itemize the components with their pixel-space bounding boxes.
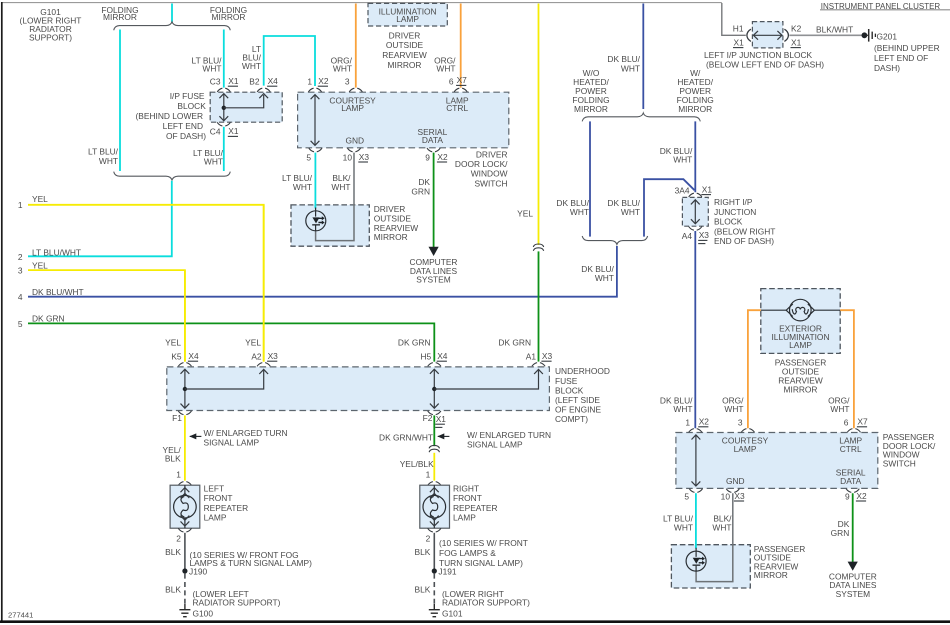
svg-text:(10 SERIES W/ FRONT: (10 SERIES W/ FRONT — [439, 538, 528, 548]
splice J191 — [432, 568, 437, 573]
svg-text:SWITCH: SWITCH — [883, 458, 916, 468]
svg-text:JUNCTION: JUNCTION — [714, 207, 756, 217]
svg-text:WHT: WHT — [673, 155, 692, 165]
pin A2 X3 — [257, 363, 270, 367]
wire blk J191 to G101 (dashed) — [433, 574, 435, 605]
svg-text:LEFT END: LEFT END — [163, 121, 203, 131]
pin 9 X2 — [427, 148, 440, 152]
svg-text:X3: X3 — [359, 152, 370, 162]
wire org/wht right of lamp to pin 6 — [840, 310, 854, 428]
wire blk J190 to G100 (dashed) — [184, 574, 186, 605]
svg-text:WHT: WHT — [712, 522, 731, 532]
svg-text:RIGHT I/P: RIGHT I/P — [714, 197, 753, 207]
svg-text:YEL/BLK: YEL/BLK — [400, 459, 434, 469]
svg-text:X3: X3 — [542, 351, 553, 361]
ground G101 — [429, 604, 440, 617]
svg-text:SYSTEM: SYSTEM — [836, 589, 870, 599]
wire 3 riser segment over crossings — [184, 270, 186, 362]
svg-text:LAMP: LAMP — [396, 14, 419, 24]
wire lt blu/wht pin 5 to mirror — [314, 153, 316, 209]
pin 9 X2 — [846, 489, 859, 493]
svg-text:WHT: WHT — [293, 182, 312, 192]
svg-text:10: 10 — [343, 152, 353, 162]
in-line connector on right repeater wire — [429, 445, 439, 452]
wire 2 riser lt blu/wht — [28, 181, 172, 256]
wire org/wht left of lamp to pin 3 — [748, 310, 761, 428]
svg-text:FUSE: FUSE — [555, 376, 578, 386]
svg-text:WHT: WHT — [99, 156, 118, 166]
wire blk/wht pin 10 down into passenger mirror — [696, 493, 733, 581]
pin K2 X1 (right paren) — [784, 29, 788, 41]
wire lt blu/wht stub from top into brace — [171, 4, 173, 23]
svg-text:MIRROR: MIRROR — [678, 104, 712, 114]
svg-text:A1: A1 — [526, 351, 537, 361]
svg-text:A2: A2 — [251, 351, 262, 361]
svg-text:MIRROR: MIRROR — [784, 384, 818, 394]
wire dk blu/wht w/ heated branch down to 3A4 — [694, 121, 696, 192]
svg-text:SIGNAL LAMP: SIGNAL LAMP — [467, 439, 523, 449]
svg-text:WHT: WHT — [331, 182, 350, 192]
underhood fuse block — [167, 367, 550, 411]
svg-text:X1: X1 — [228, 126, 239, 136]
svg-text:RADIATOR SUPPORT): RADIATOR SUPPORT) — [193, 598, 281, 608]
svg-text:MIRROR: MIRROR — [574, 104, 608, 114]
svg-text:WHT: WHT — [570, 207, 589, 217]
svg-text:H5: H5 — [420, 351, 431, 361]
svg-text:MIRROR: MIRROR — [388, 60, 422, 70]
svg-text:6: 6 — [449, 76, 454, 86]
wire lt blu/wht right folding mirror branch to C3 — [223, 30, 225, 88]
brace splitting folding mirror wires — [114, 22, 231, 30]
svg-text:K5: K5 — [171, 351, 182, 361]
svg-text:WINDOW: WINDOW — [471, 169, 508, 179]
svg-text:MIRROR: MIRROR — [374, 232, 408, 242]
svg-text:REARVIEW: REARVIEW — [382, 50, 427, 60]
svg-text:BLK: BLK — [165, 547, 181, 557]
page bottom border — [0, 620, 950, 623]
driver outside rearview mirror box — [291, 205, 369, 246]
svg-text:X1: X1 — [734, 38, 745, 48]
svg-text:3: 3 — [345, 76, 350, 86]
pin C3 — [217, 88, 230, 92]
svg-text:H1: H1 — [733, 23, 744, 33]
svg-text:X2: X2 — [699, 417, 710, 427]
wire dk blu/wht main from instrument area top — [642, 4, 644, 110]
wire dk grn from connector down to A1 — [538, 251, 540, 361]
wire dk blu/wht tap from 3A4 junction to merge brace — [644, 179, 695, 236]
svg-text:WHT: WHT — [724, 404, 743, 414]
svg-text:(BELOW LEFT END OF DASH): (BELOW LEFT END OF DASH) — [706, 60, 824, 70]
lamp symbol — [761, 299, 840, 321]
svg-text:FRONT: FRONT — [204, 493, 233, 503]
wire 5 dk grn to H5 — [28, 323, 434, 361]
svg-text:GRN: GRN — [411, 187, 430, 197]
svg-text:3A4: 3A4 — [675, 186, 690, 196]
exterior illumination lamp box (passenger mirror) — [761, 289, 840, 354]
svg-text:F1: F1 — [172, 413, 182, 423]
pin F1 — [178, 411, 191, 415]
pin 2 right repeater lamp — [428, 528, 441, 532]
svg-text:6: 6 — [844, 417, 849, 427]
svg-text:B2: B2 — [249, 76, 260, 86]
svg-text:I/P FUSE: I/P FUSE — [170, 91, 205, 101]
svg-text:SUPPORT): SUPPORT) — [29, 32, 72, 42]
pin H5 X4 — [428, 363, 441, 367]
svg-text:5: 5 — [684, 491, 689, 501]
svg-text:9: 9 — [425, 152, 430, 162]
svg-text:F2: F2 — [423, 413, 433, 423]
svg-text:YEL: YEL — [32, 194, 48, 204]
svg-text:GND: GND — [345, 135, 364, 145]
pin C4 — [217, 122, 230, 126]
wire blk left lamp to J190 — [184, 533, 186, 571]
ground splice G201 — [862, 32, 868, 38]
svg-text:3: 3 — [738, 417, 743, 427]
svg-text:WHT: WHT — [595, 273, 614, 283]
svg-text:G201: G201 — [877, 31, 898, 41]
svg-text:DOOR LOCK/: DOOR LOCK/ — [455, 159, 508, 169]
svg-text:X3: X3 — [268, 351, 279, 361]
svg-text:LEFT I/P JUNCTION BLOCK: LEFT I/P JUNCTION BLOCK — [704, 50, 813, 60]
illumination lamp (driver mirror, cut off at top) — [368, 3, 447, 26]
svg-text:DK GRN: DK GRN — [398, 337, 431, 347]
wire lt blu/wht C4 down to lower brace — [223, 127, 225, 171]
svg-text:MIRROR: MIRROR — [754, 570, 788, 580]
svg-text:SIGNAL LAMP: SIGNAL LAMP — [204, 437, 260, 447]
wire dk grn pin 9 to computer data lines arrow — [433, 153, 435, 248]
svg-text:SWITCH: SWITCH — [474, 178, 507, 188]
wire blk right lamp to J191 — [433, 533, 435, 571]
pin 6 X7 — [847, 429, 860, 433]
svg-text:J191: J191 — [438, 567, 457, 577]
wire blk/wht K2 to G201 — [789, 34, 862, 36]
wire lt blu/wht left folding mirror branch — [119, 30, 121, 172]
svg-text:DK GRN: DK GRN — [498, 337, 531, 347]
svg-text:COMPT): COMPT) — [555, 414, 588, 424]
svg-text:2: 2 — [18, 252, 23, 262]
pin 5 — [689, 489, 702, 493]
right front repeater lamp — [420, 485, 450, 528]
svg-text:LAMPS & TURN SIGNAL LAMP): LAMPS & TURN SIGNAL LAMP) — [190, 558, 313, 568]
driver switch internal courtesy lamp arrow — [314, 95, 316, 144]
svg-text:C3: C3 — [210, 76, 221, 86]
svg-text:X2: X2 — [318, 76, 329, 86]
svg-text:LAMP: LAMP — [789, 340, 812, 350]
I/P fuse block — [210, 92, 282, 122]
svg-text:DRIVER: DRIVER — [476, 150, 508, 160]
brace merging branches to wire 4 — [582, 236, 647, 244]
pin 1 left repeater lamp — [178, 482, 191, 486]
svg-text:(BEHIND UPPER: (BEHIND UPPER — [874, 43, 940, 53]
wire 1 yellow to A2 — [28, 205, 264, 362]
svg-text:1: 1 — [685, 417, 690, 427]
left i/p junction block — [752, 22, 783, 48]
wire yel/blk F1 to left repeater lamp — [184, 415, 186, 480]
svg-text:BLK/WHT: BLK/WHT — [816, 25, 853, 35]
svg-text:RADIATOR SUPPORT): RADIATOR SUPPORT) — [442, 598, 530, 608]
svg-text:5: 5 — [306, 152, 311, 162]
svg-text:WHT: WHT — [242, 61, 261, 71]
svg-text:LAMP: LAMP — [453, 512, 476, 522]
svg-text:BLK: BLK — [165, 585, 181, 595]
svg-text:X3: X3 — [734, 491, 745, 501]
svg-text:DASH): DASH) — [874, 63, 900, 73]
svg-text:X2: X2 — [856, 491, 867, 501]
svg-text:WHT: WHT — [621, 63, 640, 73]
svg-text:CTRL: CTRL — [840, 444, 862, 454]
svg-text:X2: X2 — [437, 152, 448, 162]
wire dk blu/wht from A4 down to passenger switch pin 1 — [694, 231, 696, 428]
svg-text:X1: X1 — [791, 38, 802, 48]
wire 3 yellow to K5 — [28, 270, 185, 362]
svg-text:YEL: YEL — [165, 337, 181, 347]
svg-text:OF ENGINE: OF ENGINE — [555, 405, 601, 415]
wire 4 dk blu/wht long run — [28, 246, 617, 297]
pin 5 — [309, 148, 322, 152]
svg-text:RIGHT: RIGHT — [453, 484, 479, 494]
note w/ enlarged turn signal lamp (left) — [190, 435, 202, 437]
pin 10 X3 — [347, 148, 360, 152]
svg-text:X7: X7 — [457, 75, 468, 85]
note w/ enlarged turn signal lamp (right) — [438, 435, 450, 437]
svg-text:YEL: YEL — [517, 208, 533, 218]
svg-text:K2: K2 — [791, 23, 802, 33]
svg-text:END OF DASH): END OF DASH) — [714, 236, 774, 246]
svg-text:GRN: GRN — [831, 528, 850, 538]
svg-text:WHT: WHT — [333, 64, 352, 74]
svg-text:WHT: WHT — [202, 64, 221, 74]
svg-text:WHT: WHT — [673, 404, 692, 414]
svg-text:X1: X1 — [702, 184, 713, 194]
svg-text:X1: X1 — [436, 414, 447, 424]
svg-text:X7: X7 — [857, 417, 868, 427]
svg-text:1: 1 — [176, 469, 181, 479]
passenger outside rearview mirror box — [671, 545, 750, 588]
svg-text:DK GRN: DK GRN — [32, 314, 65, 324]
brace merging folding mirror wires to wire 2 — [114, 172, 231, 180]
svg-text:4: 4 — [18, 292, 23, 302]
pin 3A4 X1 of right junction block — [689, 193, 702, 197]
left front repeater lamp — [170, 485, 200, 528]
pin 2 left repeater lamp — [178, 528, 191, 532]
svg-text:BLK: BLK — [415, 547, 431, 557]
svg-text:LAMP: LAMP — [341, 103, 364, 113]
svg-text:DATA: DATA — [422, 135, 444, 145]
svg-text:OF DASH): OF DASH) — [166, 131, 206, 141]
svg-text:(BEHIND LOWER: (BEHIND LOWER — [136, 111, 203, 121]
svg-text:MIRROR: MIRROR — [103, 12, 137, 22]
svg-text:2: 2 — [426, 534, 431, 544]
wire yel from top (door lock switch area) down to connector — [538, 4, 540, 246]
svg-text:WHT: WHT — [674, 522, 693, 532]
brace splitting dk blu/wht to heated/non-heated — [582, 113, 700, 121]
svg-text:1: 1 — [426, 469, 431, 479]
svg-text:INSTRUMENT PANEL CLUSTER: INSTRUMENT PANEL CLUSTER — [821, 2, 941, 11]
ground G100 — [179, 604, 190, 617]
right i/p junction block — [682, 197, 708, 226]
pin B2 — [257, 88, 270, 92]
svg-text:DK: DK — [418, 177, 430, 187]
svg-text:LEFT: LEFT — [204, 484, 224, 494]
wire lt blu/wht from B2 up and over to pin 1 — [264, 36, 315, 86]
page top border — [3, 2, 722, 4]
svg-text:G100: G100 — [193, 609, 214, 619]
wire blk/wht pin 10 down into mirror — [316, 153, 354, 241]
svg-text:X4: X4 — [188, 351, 199, 361]
svg-text:W/ ENLARGED TURN: W/ ENLARGED TURN — [467, 430, 551, 440]
svg-text:OUTSIDE: OUTSIDE — [386, 40, 424, 50]
svg-text:C4: C4 — [210, 127, 221, 137]
svg-text:FOG LAMPS &: FOG LAMPS & — [439, 548, 496, 558]
svg-text:DATA: DATA — [840, 476, 862, 486]
svg-text:X4: X4 — [268, 76, 279, 86]
svg-text:SYSTEM: SYSTEM — [416, 275, 450, 285]
mirror LED symbol — [306, 208, 326, 232]
page left border — [1, 2, 3, 623]
instrument panel cluster box bottom edge — [820, 9, 950, 11]
svg-text:DK BLU/WHT: DK BLU/WHT — [32, 287, 84, 297]
svg-text:X3: X3 — [699, 230, 710, 240]
wire org/wht left from top to pin 3 — [355, 4, 357, 88]
svg-text:BLK: BLK — [165, 453, 181, 463]
svg-text:(BELOW RIGHT: (BELOW RIGHT — [714, 226, 775, 236]
svg-text:1: 1 — [307, 76, 312, 86]
pin A4 X3 of right junction block — [689, 227, 702, 231]
pin 3 — [741, 429, 754, 433]
in-line connector on yel/dk grn wire — [533, 244, 543, 251]
svg-text:GND: GND — [726, 476, 745, 486]
svg-text:BLOCK: BLOCK — [714, 217, 743, 227]
fuse block internal K5-F1 with branch to A2 — [184, 370, 186, 408]
svg-text:BLOCK: BLOCK — [555, 385, 584, 395]
driver door lock/window switch box — [298, 92, 509, 148]
svg-text:LAMP: LAMP — [204, 512, 227, 522]
svg-text:9: 9 — [845, 491, 850, 501]
svg-text:WHT: WHT — [436, 64, 455, 74]
svg-text:REPEATER: REPEATER — [453, 503, 498, 513]
svg-text:WHT: WHT — [830, 404, 849, 414]
wire lt blu/wht pin 5 to passenger mirror — [695, 493, 697, 548]
svg-text:2: 2 — [176, 534, 181, 544]
svg-text:BLK: BLK — [415, 585, 431, 595]
pin 1 X2 — [308, 88, 321, 92]
pin 3 — [349, 88, 362, 92]
pin F2 X1 — [428, 411, 441, 415]
pin 10 X3 — [726, 489, 739, 493]
passenger mirror LED symbol — [686, 548, 706, 572]
wire 1 riser segment over crossings — [263, 205, 265, 362]
svg-text:277441: 277441 — [8, 611, 33, 620]
svg-text:1: 1 — [18, 200, 23, 210]
wire org/wht right from top to pin 6 — [460, 4, 462, 88]
wire dk grn/wht F2 to connector — [433, 415, 435, 446]
svg-text:YEL: YEL — [245, 337, 261, 347]
wire from instrument panel cluster to H1 — [722, 3, 746, 35]
svg-text:(LEFT SIDE: (LEFT SIDE — [555, 395, 600, 405]
svg-text:3: 3 — [18, 265, 23, 275]
svg-text:LT BLU/WHT: LT BLU/WHT — [32, 247, 81, 257]
wire dk blu/wht w/o heated branch — [589, 121, 591, 236]
svg-text:5: 5 — [18, 319, 23, 329]
pin 1 right repeater lamp — [428, 482, 441, 486]
passenger switch internal courtesy arrow — [695, 436, 697, 486]
svg-text:MIRROR: MIRROR — [212, 12, 246, 22]
svg-text:REPEATER: REPEATER — [204, 503, 249, 513]
I/P fuse block internal circuit C3-C4 with branch to B2 — [223, 94, 225, 120]
svg-text:10: 10 — [721, 491, 731, 501]
svg-text:X1: X1 — [228, 76, 239, 86]
svg-text:DRIVER: DRIVER — [389, 30, 421, 40]
wire yel/blk connector to right repeater lamp — [433, 453, 435, 481]
svg-text:J190: J190 — [189, 567, 208, 577]
svg-text:X4: X4 — [437, 351, 448, 361]
svg-text:YEL: YEL — [32, 260, 48, 270]
svg-text:WHT: WHT — [621, 207, 640, 217]
passenger door lock/window switch box — [676, 433, 878, 489]
pin 6 X7 — [454, 88, 467, 92]
svg-text:A4: A4 — [682, 231, 693, 241]
fuse block internal H5-F2 with branch to A1 — [433, 370, 435, 408]
svg-text:G101: G101 — [442, 609, 463, 619]
svg-text:BLOCK: BLOCK — [177, 101, 206, 111]
pin K5 X4 — [178, 363, 191, 367]
svg-text:UNDERHOOD: UNDERHOOD — [555, 366, 610, 376]
pin H1 X1 (left paren) — [747, 29, 751, 41]
pin A1 X3 — [532, 363, 545, 367]
svg-text:FRONT: FRONT — [453, 493, 482, 503]
wire dk grn pin 9 to computer data lines arrow — [852, 493, 854, 562]
svg-text:LAMP: LAMP — [734, 444, 757, 454]
svg-text:WHT: WHT — [204, 156, 223, 166]
splice J190 — [182, 568, 187, 573]
svg-text:LEFT END OF: LEFT END OF — [874, 53, 928, 63]
svg-text:CTRL: CTRL — [446, 103, 468, 113]
pin 1 X2 — [689, 429, 702, 433]
svg-text:DK GRN/WHT: DK GRN/WHT — [379, 433, 433, 443]
